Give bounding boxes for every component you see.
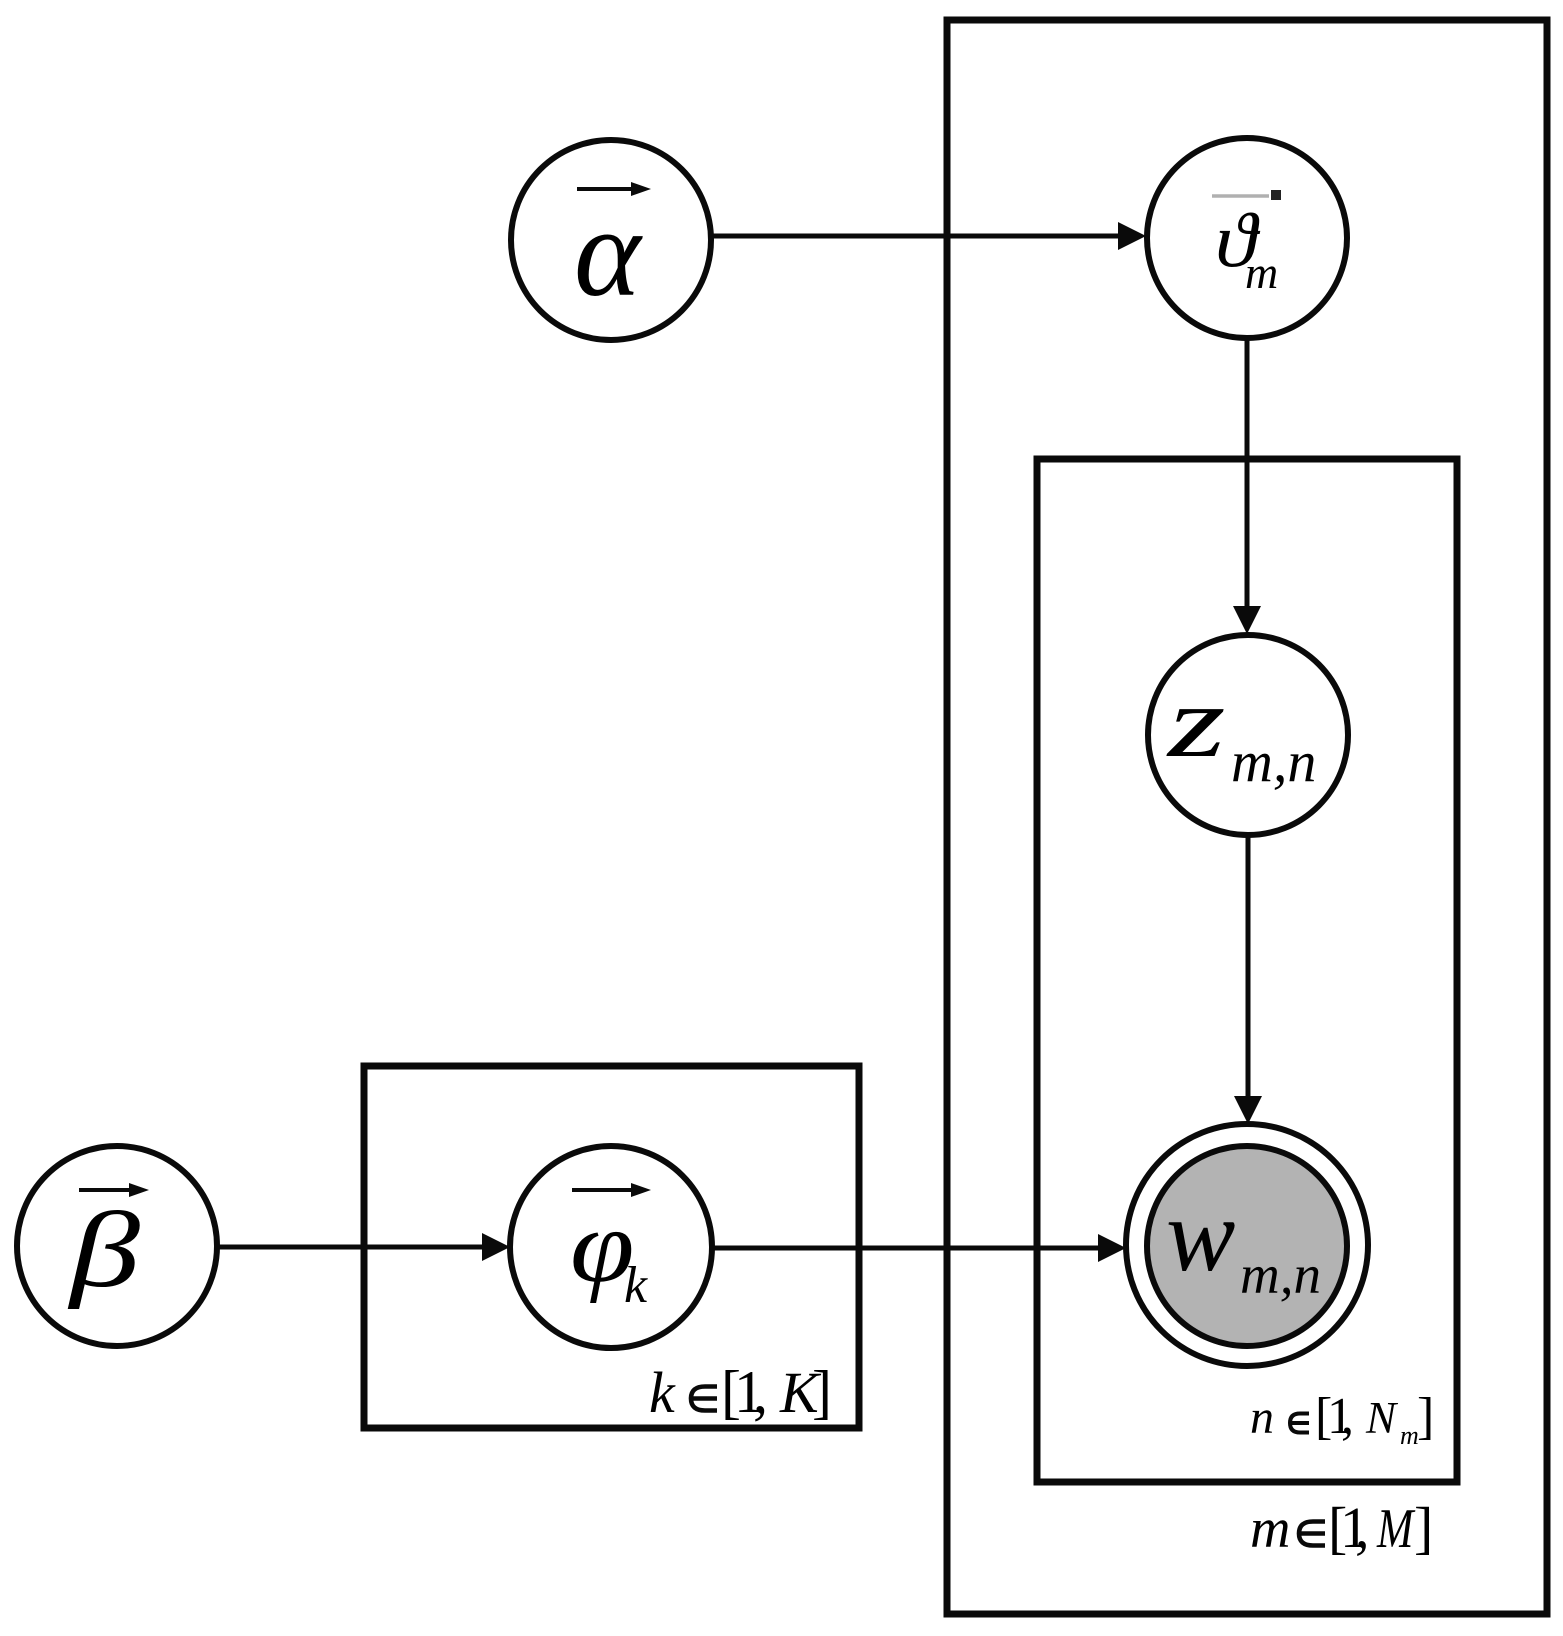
- svg-text:m: m: [1400, 1421, 1419, 1450]
- svg-text:,: ,: [753, 1359, 768, 1425]
- node beta: [17, 1146, 217, 1346]
- svg-text:]: ]: [1417, 1388, 1434, 1445]
- wire alpha to vartheta: [712, 234, 1120, 239]
- svg-text:,: ,: [1355, 1495, 1370, 1560]
- svg-text:k: k: [624, 1257, 648, 1314]
- plate M (outer): [947, 20, 1547, 1614]
- wire z to w: [1246, 836, 1251, 1100]
- plate K: [364, 1066, 859, 1428]
- svg-text:m: m: [1250, 1498, 1290, 1560]
- node z: [1148, 635, 1348, 835]
- svg-text:]: ]: [1414, 1495, 1433, 1560]
- svg-text:m: m: [1245, 247, 1278, 298]
- svg-text:β: β: [67, 1190, 141, 1310]
- node alpha: [511, 140, 711, 340]
- svg-text:k: k: [649, 1360, 676, 1425]
- svg-text:m,n: m,n: [1231, 729, 1316, 794]
- plate N (inner): [1037, 459, 1457, 1482]
- node w (observed, double circle): [1126, 1124, 1368, 1366]
- svg-text:z: z: [1166, 666, 1226, 778]
- wire beta to phi: [218, 1245, 485, 1250]
- svg-text:m,n: m,n: [1240, 1244, 1321, 1305]
- svg-text:w: w: [1166, 1178, 1235, 1293]
- svg-text:α: α: [574, 183, 643, 323]
- wire phi to w: [713, 1246, 1100, 1251]
- svg-text:N: N: [1365, 1393, 1399, 1443]
- node vartheta: [1147, 138, 1347, 338]
- svg-text:M: M: [1376, 1497, 1416, 1559]
- node phi: [510, 1146, 712, 1348]
- svg-text:]: ]: [812, 1359, 832, 1425]
- svg-text:,: ,: [1341, 1388, 1354, 1445]
- svg-text:n: n: [1250, 1391, 1274, 1444]
- wire vartheta to z: [1245, 339, 1250, 610]
